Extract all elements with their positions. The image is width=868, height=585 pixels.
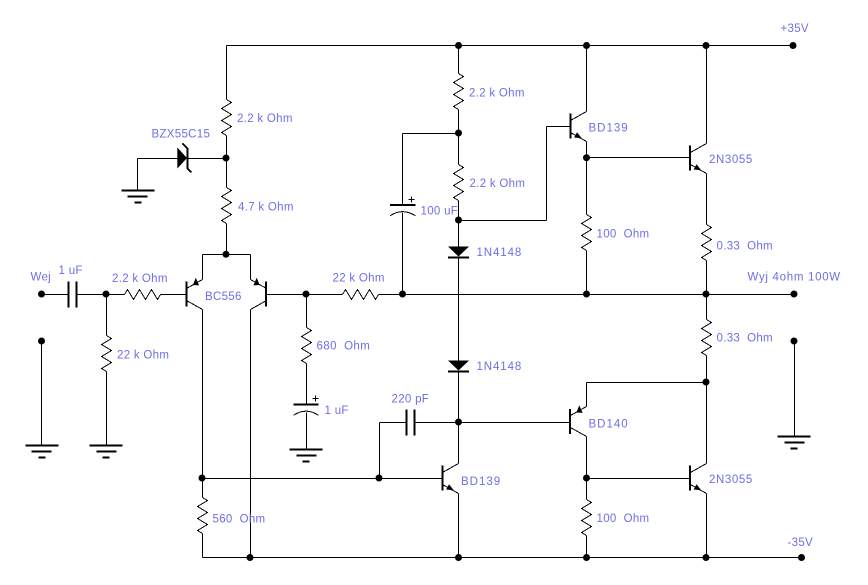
resistor R5 22 k Ohm feedback [343, 290, 379, 300]
wire R10 to output [706, 261, 708, 295]
resistor R13 100 Ohm bottom [582, 500, 592, 536]
resistor R6 680 Ohm [302, 328, 312, 364]
node input ground terminal [38, 338, 45, 345]
transistor Q7 2N3055 bottom [690, 464, 707, 494]
svg-text:2.2 k Ohm: 2.2 k Ohm [470, 178, 526, 190]
wire Q7 emitter down [706, 494, 708, 558]
wire rail to R7 [458, 46, 460, 74]
wire R1 to R2 [226, 136, 228, 188]
resistor R11 0.33 Ohm bottom [702, 320, 712, 356]
wire common emitter [203, 254, 251, 256]
wire cap branch down [402, 134, 404, 206]
node bootstrap junction [399, 291, 406, 298]
wire BD140 emitter vertical [586, 383, 588, 407]
node rail junction 1 [455, 42, 462, 49]
svg-text:22 k Ohm: 22 k Ohm [117, 350, 169, 362]
wire Q4 emitter to R10 [706, 174, 708, 225]
svg-text:560 Ohm: 560 Ohm [213, 513, 266, 525]
ground output [778, 437, 811, 449]
svg-text:-35V: -35V [788, 537, 814, 549]
svg-text:100 Ohm: 100 Ohm [597, 513, 650, 525]
ground input [26, 446, 59, 458]
wire D1 to D2 [458, 258, 460, 362]
wire input ground drop [41, 342, 43, 446]
svg-text:2N3055: 2N3055 [709, 154, 753, 166]
resistor R4 22 k Ohm input [102, 336, 112, 372]
node Q3 emitter junction [583, 154, 590, 161]
node output ground terminal [791, 338, 798, 345]
transistor Q4 2N3055 top [690, 144, 707, 174]
node +35V terminal [790, 42, 797, 49]
node lower mid junction [583, 475, 590, 482]
wire Q2 emitter up [250, 255, 252, 280]
wire R11 to Q6 emitter node [706, 356, 708, 383]
diode D2 1N4148 [448, 361, 469, 372]
resistor R12 560 Ohm [198, 498, 208, 534]
wire lower junction to Q7 base [587, 478, 691, 480]
svg-text:680 Ohm: 680 Ohm [317, 341, 371, 353]
svg-text:BD139: BD139 [461, 476, 501, 488]
node driver base junction [455, 217, 462, 224]
ground zener [122, 191, 155, 203]
svg-text:Wyj 4ohm 100W: Wyj 4ohm 100W [748, 271, 841, 283]
resistor R10 0.33 Ohm top [702, 225, 712, 261]
svg-text:1 uF: 1 uF [325, 405, 349, 417]
wire Q6 emitter down [458, 494, 460, 558]
wire top +35V rail [227, 45, 794, 47]
wire C1 to node [77, 294, 125, 296]
ground R4 [90, 446, 123, 458]
node input junction [103, 291, 110, 298]
svg-text:2.2 k Ohm: 2.2 k Ohm [112, 273, 168, 285]
resistor R8 2.2 k Ohm lower [454, 165, 464, 201]
wire Q1 emitter up [202, 255, 204, 280]
wire R6 to C2 [306, 364, 308, 405]
wire Q1 collector down [202, 310, 204, 479]
node output terminal [791, 291, 798, 298]
node Q6 emitter junction [703, 379, 710, 386]
node rail junction 2 [583, 42, 590, 49]
resistor R1 2.2 k Ohm top-left [222, 100, 232, 136]
node input terminal [38, 291, 45, 298]
node rail Q7 emitter [703, 554, 710, 561]
node -35V terminal [798, 554, 805, 561]
wire Q3 emitter to R9 [586, 158, 588, 215]
wire R12 to rail [202, 534, 204, 558]
wire R4 to ground [106, 372, 108, 446]
resistor R2 4.7 k Ohm [222, 188, 232, 224]
resistor R3 2.2 k Ohm input [125, 290, 161, 300]
wire C4 right [415, 422, 459, 424]
node zener junction [223, 155, 230, 162]
node bootstrap cap junction [455, 130, 462, 137]
node C4 junction [376, 475, 383, 482]
transistor Q2 BC556 right [251, 278, 267, 310]
wire driver base link vertical [546, 127, 548, 221]
wire C2 to ground [306, 413, 308, 450]
wire Q2 base right [267, 294, 343, 296]
wire R9 to output [586, 251, 588, 295]
svg-text:+35V: +35V [781, 23, 809, 35]
node rail junction 3 [703, 42, 710, 49]
wire rail to R1 [226, 46, 228, 100]
svg-text:1 uF: 1 uF [59, 265, 83, 277]
wire zener to ground [137, 159, 139, 191]
svg-text:Wej: Wej [31, 272, 52, 284]
svg-text:BC556: BC556 [205, 291, 242, 303]
capacitor C3 100 uF electrolytic [390, 197, 416, 216]
node rail Q6 emitter [455, 554, 462, 561]
wire output to R11 [706, 295, 708, 320]
wire zener cathode to node [188, 158, 227, 160]
capacitor C1 1 uF input [69, 282, 77, 308]
svg-text:22 k Ohm: 22 k Ohm [333, 273, 385, 285]
wire Q5 collector down [586, 437, 588, 479]
svg-text:2.2 k Ohm: 2.2 k Ohm [469, 88, 525, 100]
diode D1 1N4148 [448, 247, 469, 258]
svg-text:BD140: BD140 [589, 419, 629, 431]
transistor Q6 BD139 bottom [443, 464, 459, 494]
svg-text:BD139: BD139 [589, 123, 629, 135]
zener diode D3 BZX55C15 [177, 148, 187, 169]
wire cap branch horizontal [403, 133, 459, 135]
wire C4 left [380, 422, 407, 424]
svg-text:1N4148: 1N4148 [477, 361, 523, 373]
wire node to R4 [106, 295, 108, 336]
wire to Q3 base [547, 126, 571, 128]
capacitor C4 220 pF [407, 410, 415, 436]
svg-text:2N3055: 2N3055 [709, 474, 753, 486]
node output junction left [583, 291, 590, 298]
svg-text:1N4148: 1N4148 [477, 247, 523, 259]
node vas junction [455, 419, 462, 426]
node Q1 collector junction [199, 475, 206, 482]
wire input to C1 [42, 294, 69, 296]
svg-text:4.7 k Ohm: 4.7 k Ohm [238, 202, 294, 214]
svg-text:0.33 Ohm: 0.33 Ohm [717, 240, 773, 252]
transistor Q5 BD140 [570, 405, 587, 436]
wire C4 down [379, 423, 381, 479]
wire 100 Ohm bottom up [586, 479, 588, 500]
wire Q3 emitter down [586, 142, 588, 158]
svg-text:220 pF: 220 pF [392, 393, 430, 405]
svg-text:100 Ohm: 100 Ohm [597, 228, 650, 240]
resistor R7 2.2 k Ohm upper [454, 74, 464, 110]
wire 680 down [306, 295, 308, 328]
wire D2 down to Q5 collector [458, 372, 460, 464]
wire R3 to base Q1 [161, 294, 187, 296]
wire driver base link horizontal [459, 220, 547, 222]
wire Q7 collector up [706, 383, 708, 464]
svg-text:100 uF: 100 uF [421, 206, 459, 218]
transistor Q3 BD139 top [571, 112, 587, 142]
transistor Q1 BC556 left [187, 278, 203, 310]
wire R7 to R8 [458, 110, 460, 165]
wire output ground drop [794, 342, 796, 437]
wire emitter node to BD140 [587, 382, 707, 384]
node output junction right [703, 291, 710, 298]
capacitor C2 1 uF electrolytic [294, 396, 319, 416]
node rail R13 [583, 554, 590, 561]
wire R13 to rail [586, 536, 588, 558]
wire Q3 emitter to Q4 base [587, 157, 691, 159]
wire C3 to output line [402, 213, 404, 295]
wire R8 to D1 [458, 201, 460, 248]
svg-text:2.2 k Ohm: 2.2 k Ohm [237, 113, 293, 125]
node rail Q2 collector [247, 554, 254, 561]
wire R2 to emitter node [226, 224, 228, 255]
node 680 junction [303, 291, 310, 298]
wire 560 down [202, 479, 204, 498]
node common emitter [223, 251, 230, 258]
resistor R9 100 Ohm top [582, 215, 592, 251]
ground C2 [290, 450, 323, 462]
svg-text:BZX55C15: BZX55C15 [152, 129, 211, 141]
wire Q2 collector down [250, 310, 252, 558]
wire Q4 collector to rail [706, 46, 708, 144]
wire Q3 collector to rail [586, 46, 588, 112]
wire bottom -35V rail [203, 557, 802, 559]
wire R5 to output line [379, 294, 795, 296]
wire Q5 base [459, 422, 571, 424]
wire lower line [203, 478, 443, 480]
svg-text:0.33 Ohm: 0.33 Ohm [717, 332, 773, 344]
wire zener anode [138, 158, 178, 160]
